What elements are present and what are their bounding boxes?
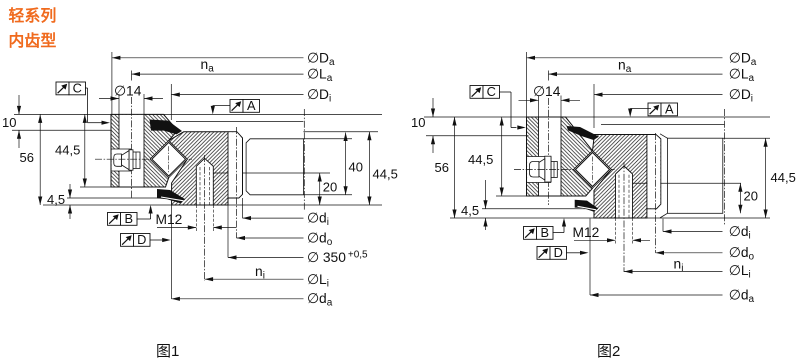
svg-text:44,5: 44,5 bbox=[55, 143, 80, 158]
svg-text:轻系列: 轻系列 bbox=[9, 6, 57, 25]
svg-text:44,5: 44,5 bbox=[771, 170, 796, 185]
inner ring I1 (hatched section) bbox=[169, 132, 243, 205]
datum flag C bbox=[470, 84, 500, 99]
gear pitch centerline bbox=[236, 127, 238, 238]
wire outer ring bottom extension bbox=[80, 186, 111, 188]
dim Di inner ring OD bbox=[170, 84, 172, 120]
gear tooth zone bbox=[229, 132, 243, 197]
svg-text:A: A bbox=[247, 98, 256, 113]
grease nipple recess bbox=[112, 149, 131, 171]
axis centerline bbox=[303, 109, 305, 210]
datum flag B bbox=[524, 225, 554, 240]
axis centerline bbox=[724, 109, 726, 226]
tapped hole wall extensions bbox=[615, 218, 617, 244]
svg-text:56: 56 bbox=[20, 150, 34, 165]
svg-text:56: 56 bbox=[435, 160, 449, 175]
svg-text:∅Li: ∅Li bbox=[729, 263, 751, 281]
figure 1 group bbox=[2, 51, 398, 361]
svg-text:M12: M12 bbox=[573, 225, 600, 240]
svg-text:44,5: 44,5 bbox=[468, 152, 493, 167]
tapped hole M12 bbox=[616, 166, 633, 218]
wire housing line upper bbox=[176, 121, 303, 123]
dim da bbox=[170, 205, 172, 299]
svg-text:M12: M12 bbox=[156, 212, 183, 227]
svg-text:∅di: ∅di bbox=[307, 211, 329, 229]
wire top surface extension line bbox=[424, 116, 770, 118]
svg-text:40: 40 bbox=[349, 160, 363, 175]
tapped hole wall extensions bbox=[195, 205, 197, 232]
dim La bolt circle outer bbox=[549, 73, 723, 75]
wire top surface extension line bbox=[14, 113, 382, 115]
dim do bbox=[237, 237, 304, 239]
dim DA outer diameter bbox=[111, 52, 113, 114]
gear tooth zone bbox=[647, 135, 660, 208]
mating pinion outline bbox=[667, 138, 722, 213]
dim 350 bbox=[227, 205, 229, 258]
svg-text:∅Di: ∅Di bbox=[307, 87, 331, 105]
datum flag C bbox=[56, 80, 86, 95]
seal upper bbox=[567, 126, 600, 140]
grease nipple centerline bbox=[95, 158, 192, 160]
svg-text:20: 20 bbox=[744, 189, 758, 204]
dim di bbox=[242, 198, 244, 218]
wire bottom base extension line bbox=[450, 217, 770, 219]
bolt hole (diam 14) slot bbox=[539, 118, 562, 196]
wire 20-dim upper extension bbox=[633, 182, 741, 184]
bolt hole centerline bbox=[131, 71, 133, 81]
grease nipple fitting bbox=[131, 152, 140, 168]
wire outer ring bottom extension bbox=[496, 195, 527, 197]
seal upper bbox=[150, 120, 183, 135]
dim da bbox=[589, 219, 591, 296]
dim Li bbox=[624, 271, 723, 273]
svg-text:D: D bbox=[554, 245, 563, 260]
svg-text:图2: 图2 bbox=[597, 343, 620, 360]
svg-text:44,5: 44,5 bbox=[373, 167, 398, 182]
dim di bbox=[662, 219, 664, 232]
wire inner ring top extension bbox=[303, 131, 378, 133]
outer ring O1 (hatched section) bbox=[111, 114, 178, 187]
svg-text:∅14: ∅14 bbox=[533, 84, 561, 99]
dim La bolt circle outer bbox=[132, 73, 304, 75]
tapped hole M12 bbox=[196, 158, 213, 204]
outer ring O2 (hatched section) bbox=[527, 117, 593, 196]
svg-text:10: 10 bbox=[411, 115, 425, 130]
svg-text:B: B bbox=[540, 225, 549, 240]
svg-text:∅Di: ∅Di bbox=[729, 87, 753, 105]
wire pinion top extension bbox=[723, 137, 770, 139]
dim do bbox=[656, 252, 723, 254]
seal lower bbox=[575, 200, 599, 212]
wire tooth bottom extension left bbox=[482, 208, 597, 210]
gear pitch centerline bbox=[655, 133, 657, 253]
grease nipple fitting bbox=[551, 162, 557, 178]
svg-text:∅Li: ∅Li bbox=[307, 272, 329, 290]
svg-text:4,5: 4,5 bbox=[461, 203, 479, 218]
wire 20-dim upper extension bbox=[212, 172, 330, 174]
svg-text:C: C bbox=[487, 84, 496, 99]
grease nipple recess bbox=[527, 157, 551, 183]
datum flag A bbox=[230, 98, 260, 113]
bolt hole centerline bbox=[548, 71, 550, 81]
mating pinion outline bbox=[246, 139, 303, 195]
svg-text:4,5: 4,5 bbox=[47, 192, 65, 207]
svg-text:10: 10 bbox=[2, 115, 16, 130]
svg-text:D: D bbox=[137, 232, 146, 247]
wire 10-dim lower reference line bbox=[12, 129, 111, 131]
datum flag B bbox=[108, 211, 138, 226]
wire pinion bottom extension bbox=[303, 194, 352, 196]
tapped hole centerline bbox=[204, 155, 206, 281]
svg-text:图1: 图1 bbox=[156, 343, 179, 360]
wire 10-dim lower reference line bbox=[426, 135, 529, 137]
crossed roller (diamond) bbox=[574, 151, 612, 189]
svg-text:∅14: ∅14 bbox=[114, 84, 142, 99]
wire pinion top extension bbox=[303, 138, 352, 140]
datum flag D bbox=[537, 245, 567, 260]
inner ring I2 (hatched section) bbox=[593, 135, 661, 219]
grease nipple centerline bbox=[514, 169, 616, 171]
svg-text:C: C bbox=[73, 80, 82, 95]
dim Di inner ring OD bbox=[593, 84, 595, 128]
svg-text:A: A bbox=[665, 101, 674, 116]
wire tooth bottom extension left bbox=[67, 197, 180, 199]
figure 2 group bbox=[411, 51, 796, 361]
tapped hole centerline bbox=[623, 162, 625, 272]
wire housing line upper bbox=[601, 124, 725, 126]
svg-text:∅di: ∅di bbox=[729, 224, 751, 242]
dim DA outer diameter bbox=[526, 52, 528, 117]
datum flag A bbox=[648, 101, 678, 116]
seal lower bbox=[157, 189, 185, 203]
wire bottom base extension line bbox=[43, 204, 382, 206]
svg-text:内齿型: 内齿型 bbox=[9, 31, 57, 50]
crossed roller (diamond) bbox=[150, 141, 187, 178]
dim Li bbox=[205, 278, 304, 280]
bolt hole (diam 14) slot bbox=[119, 115, 144, 187]
svg-text:B: B bbox=[124, 211, 133, 226]
datum flag D bbox=[121, 232, 151, 247]
svg-text:20: 20 bbox=[323, 180, 337, 195]
